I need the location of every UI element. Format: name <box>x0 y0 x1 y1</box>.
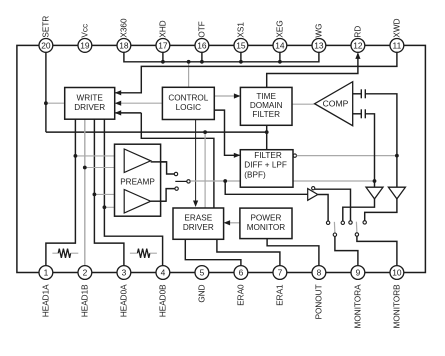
svg-text:DIFF + LPF: DIFF + LPF <box>244 161 287 170</box>
svg-text:ERA1: ERA1 <box>276 284 285 306</box>
node: bus junction pin 15 <box>239 60 243 64</box>
IC outer boundary <box>17 45 426 272</box>
block U PREAMP <box>115 144 161 216</box>
node: SETR / erase-driver gray branch junction <box>203 130 207 134</box>
block U WRITE DRIVER <box>65 88 115 120</box>
svg-text:12: 12 <box>353 41 363 51</box>
pin 12 RD <box>351 26 365 53</box>
svg-text:14: 14 <box>275 41 285 51</box>
resistor head damping R (pins 1-2) <box>52 249 78 258</box>
svg-text:ERA0: ERA0 <box>237 284 246 306</box>
wire: tap to PREAMP input 3 (gray) <box>94 193 114 195</box>
node: bus junction pin 17 <box>161 60 165 64</box>
svg-text:HEAD1B: HEAD1B <box>81 284 90 317</box>
capacitor C feedback upper <box>353 89 397 187</box>
pin 10 MONITORB <box>390 266 404 329</box>
wire: PREAMP upper output to switch contact <box>151 162 174 174</box>
svg-text:13: 13 <box>314 41 324 51</box>
switch head-select arm <box>175 180 186 182</box>
wire: tap to PREAMP input 2 (gray) <box>85 167 115 169</box>
wire: net to WRITE DRIVER lower input and ERASE DRIVER <box>115 110 214 208</box>
svg-text:3: 3 <box>122 268 127 278</box>
wire: PREAMP lower output to switch contact <box>151 189 175 202</box>
wire: FILTER output to monitor amp 1 (gray) <box>293 180 375 182</box>
svg-text:8: 8 <box>317 268 322 278</box>
svg-text:Vcc: Vcc <box>81 24 90 38</box>
wire: CONTROL LOGIC gray output to WRITE DRIVER <box>115 101 163 106</box>
wire: preamp lower apex lead <box>151 200 166 202</box>
node: read-path buffer branch junction <box>223 179 227 183</box>
svg-text:X360: X360 <box>120 18 129 38</box>
node: SETR / TDF-FILTER junction <box>265 130 269 134</box>
transistor/driver monitor amp 1 (down triangle) <box>366 187 383 199</box>
wire: pin 16 stub to bus <box>201 52 203 62</box>
node: head tap junction 4 <box>103 205 107 209</box>
svg-text:4: 4 <box>161 268 166 278</box>
node: bus junction pin 14 <box>278 60 282 64</box>
wire: pin 14 stub to bus <box>279 52 281 62</box>
wire: bus drop into CONTROL LOGIC (gray) <box>188 62 190 88</box>
svg-text:17: 17 <box>158 41 168 51</box>
svg-text:18: 18 <box>119 41 129 51</box>
svg-text:COMP: COMP <box>323 99 349 109</box>
node: head tap junction 1 <box>74 154 78 158</box>
node: monitor amp 1 input junction <box>373 179 377 183</box>
wire: FILTER (BPF) output circle <box>293 154 296 157</box>
wire: SETR horizontal run to filter junction <box>46 131 267 133</box>
svg-text:19: 19 <box>80 41 90 51</box>
svg-text:MONITOR: MONITOR <box>247 223 286 232</box>
wire: RD output to pin 12 <box>267 52 361 87</box>
wire: monitor amp 2 output to switch contact <box>365 199 397 221</box>
wire: monitor amp 1 output to switch contact <box>343 199 375 221</box>
pin 11 XWD <box>390 18 404 52</box>
wire: preamp upper apex lead <box>151 161 167 163</box>
svg-text:MONITORB: MONITORB <box>393 284 402 329</box>
svg-text:1: 1 <box>44 268 49 278</box>
pin 13 WG <box>312 23 326 52</box>
wire: POWER MONITOR to ERASE DRIVER (gray) <box>224 220 240 225</box>
svg-text:5: 5 <box>200 268 205 278</box>
wire: buffer tap to switch contact <box>315 189 351 221</box>
resistor head damping R (pins 3-4) <box>130 249 157 258</box>
block U TIME DOMAIN FILTER <box>240 87 292 125</box>
block U FILTER DIFF+LPF (BPF) <box>240 150 293 188</box>
wire: logic input bus (pins 18-13) <box>124 52 319 62</box>
wire: switch pole B to pin 10 MONITORB <box>357 236 397 266</box>
svg-text:7: 7 <box>278 268 283 278</box>
svg-text:DRIVER: DRIVER <box>183 223 214 232</box>
svg-text:11: 11 <box>393 41 402 51</box>
node: head tap junction 2 <box>83 166 87 170</box>
svg-text:XS1: XS1 <box>237 22 246 38</box>
svg-text:MONITORA: MONITORA <box>354 284 363 329</box>
wire: switch pole A to pin 9 MONITORA <box>335 236 358 266</box>
pin 9 MONITORA <box>351 266 365 329</box>
wire: POWER MONITOR to pin 8 PONOUT <box>267 239 319 266</box>
node: bus junction to CONTROL LOGIC <box>187 60 191 64</box>
switch monitor A pole <box>333 233 336 236</box>
wire: tap to PREAMP input 4 (gray) <box>104 206 114 208</box>
svg-text:GND: GND <box>198 284 207 302</box>
block U CONTROL LOGIC <box>162 87 214 119</box>
switch monitor A contact right <box>341 221 344 224</box>
wire: TIME DOMAIN FILTER to FILTER (BPF) <box>266 125 268 149</box>
wire: XWD pin 11 to WRITE DRIVER <box>115 52 397 95</box>
svg-text:XWD: XWD <box>393 18 402 37</box>
switch head-select contact lower <box>175 187 178 190</box>
svg-text:2: 2 <box>83 268 88 278</box>
svg-text:15: 15 <box>236 41 246 51</box>
switch monitor B contact right <box>363 221 366 224</box>
pin 17 XHD <box>156 20 170 52</box>
wire: ERASE DRIVER to pin 6 ERA0 <box>185 239 241 266</box>
node: bus junction pin 16 <box>200 60 204 64</box>
node: monitor amp 2 input junction <box>395 154 399 158</box>
svg-text:WRITE: WRITE <box>77 93 104 102</box>
op-amp read buffer U <box>308 189 318 201</box>
wire: SETR pin 20 drop <box>45 52 47 132</box>
svg-text:HEAD0A: HEAD0A <box>120 284 129 317</box>
wire: WRITE DRIVER output to pin 1 HEAD1A <box>46 119 76 266</box>
svg-text:9: 9 <box>356 268 361 278</box>
pin 5 GND <box>195 266 209 303</box>
switch monitor B pole <box>355 233 358 236</box>
svg-text:20: 20 <box>41 41 51 51</box>
pin 19 Vcc <box>78 24 92 52</box>
wire: WRITE DRIVER output to pin 4 HEAD0B <box>104 119 162 266</box>
pin 20 SETR <box>39 16 53 53</box>
svg-text:WG: WG <box>315 23 324 37</box>
svg-text:XEG: XEG <box>276 20 285 37</box>
pin 3 HEAD0A <box>117 266 131 318</box>
svg-text:LOGIC: LOGIC <box>176 103 202 112</box>
pin 7 ERA1 <box>273 266 287 306</box>
wire: CONTROL LOGIC to TIME DOMAIN FILTER (gray) <box>214 93 240 98</box>
transistor/driver monitor amp 2 (down triangle) <box>388 187 405 199</box>
pin 1 HEAD1A <box>39 266 53 318</box>
wire: TIME DOMAIN FILTER to COMP (gray) <box>292 103 315 105</box>
capacitor C feedback lower <box>353 109 375 187</box>
svg-text:PONOUT: PONOUT <box>315 284 324 319</box>
wire: tap to PREAMP input 1 (gray) <box>75 155 114 157</box>
pin 15 XS1 <box>234 22 248 53</box>
pin 6 ERA0 <box>234 266 248 306</box>
svg-text:HEAD0B: HEAD0B <box>159 284 168 317</box>
svg-text:CONTROL: CONTROL <box>168 93 208 102</box>
pin 4 HEAD0B <box>156 266 170 318</box>
svg-text:PREAMP: PREAMP <box>120 177 155 186</box>
wire: CONTROL LOGIC to FILTER (BPF) <box>214 110 240 158</box>
switch monitor A arm (gray) <box>333 222 336 233</box>
svg-text:(BPF): (BPF) <box>244 170 266 179</box>
svg-text:ERASE: ERASE <box>184 214 212 223</box>
svg-text:XHD: XHD <box>159 20 168 37</box>
pin 2 HEAD1B <box>78 266 92 318</box>
wire: SETR branch into WRITE DRIVER (gray) <box>46 102 65 104</box>
svg-text:HEAD1A: HEAD1A <box>42 284 51 317</box>
block U POWER MONITOR <box>240 208 292 239</box>
wire: switch pole to FILTER input (gray) <box>190 180 240 182</box>
pin 14 XEG <box>273 20 287 52</box>
pin 8 PONOUT <box>312 266 326 320</box>
wire: pin 15 stub to bus <box>240 52 242 62</box>
switch monitor B contact left <box>349 221 352 224</box>
wire: buffer output to switch contact <box>318 195 328 222</box>
wire: WRITE DRIVER output to pin 2 HEAD1B (gray) <box>84 119 86 266</box>
svg-text:FILTER: FILTER <box>252 110 280 119</box>
pin 18 X360 <box>117 18 131 52</box>
wire: WRITE DRIVER output to pin 3 HEAD0A <box>94 119 124 266</box>
node: head tap junction 3 <box>93 193 97 197</box>
wire: branch to read buffer <box>225 181 308 194</box>
svg-text:FILTER: FILTER <box>254 151 282 160</box>
svg-text:RD: RD <box>354 26 363 38</box>
op-amp COMP comparator <box>315 82 353 126</box>
svg-text:10: 10 <box>392 268 402 278</box>
svg-text:POWER: POWER <box>250 213 281 222</box>
switch monitor B arm (gray) <box>355 222 358 233</box>
svg-text:DOMAIN: DOMAIN <box>250 101 283 110</box>
node: SETR / WRITE DRIVER branch junction <box>44 101 48 105</box>
switch head-select contact upper <box>174 172 177 175</box>
svg-text:16: 16 <box>197 41 207 51</box>
wire: FILTER output to monitor amp 2 (gray) <box>297 155 397 157</box>
switch head-select pole <box>187 180 190 183</box>
svg-text:6: 6 <box>239 268 244 278</box>
svg-text:TIME: TIME <box>256 92 276 101</box>
wire: ERASE DRIVER to pin 7 ERA1 <box>217 239 280 266</box>
svg-text:OTF: OTF <box>198 21 207 37</box>
svg-text:DRIVER: DRIVER <box>74 103 105 112</box>
wire: gray drop to ERASE DRIVER <box>204 132 206 208</box>
node: buffer bubble tap <box>312 187 315 190</box>
wire: pin 17 stub to bus <box>162 52 164 62</box>
block U ERASE DRIVER <box>173 208 224 239</box>
wire: CONTROL LOGIC drop to ERASE DRIVER with arrow <box>193 120 198 208</box>
pin 16 OTF <box>195 21 209 52</box>
switch monitor A contact left <box>326 221 329 224</box>
svg-text:SETR: SETR <box>42 16 51 38</box>
